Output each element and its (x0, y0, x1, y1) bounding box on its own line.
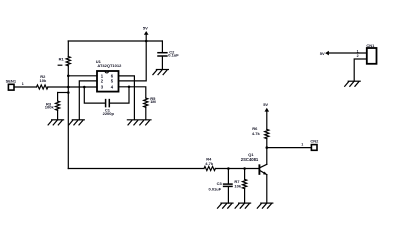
svg-text:1: 1 (301, 143, 303, 147)
wire pin2 to ground (79, 81, 97, 120)
capacitor C2 (158, 41, 179, 69)
svg-text:10k: 10k (234, 183, 241, 188)
wire pin6 to ground (119, 76, 135, 120)
wire R2 to IC pin3 (node SNS) (48, 86, 97, 88)
junction R1 bottom x pin1 wire (67, 75, 70, 78)
junction 5V drop x rail (145, 40, 148, 43)
resistor R7 (234, 179, 246, 203)
wire CN1 pin2 to ground (354, 59, 367, 81)
transistor Q1 2SC4081 (241, 148, 267, 204)
ground under R3 (48, 120, 63, 125)
resistor R5 (144, 96, 157, 120)
C1 left riser (84, 87, 105, 103)
svg-text:AT42QT1012: AT42QT1012 (97, 63, 122, 68)
wire SEN1 to R2 (14, 86, 36, 88)
wire pin1 (68, 75, 97, 77)
resistor R3 (45, 93, 69, 120)
ground under CN1 pin2 (345, 81, 361, 86)
svg-text:100k: 100k (45, 105, 55, 110)
C1 right riser to pin4 wire (110, 87, 130, 103)
svg-text:4.7k: 4.7k (252, 131, 261, 136)
C3 drop (227, 169, 229, 184)
resistor R1 (58, 41, 70, 76)
svg-text:1M: 1M (150, 99, 156, 104)
R7 drop (244, 169, 246, 180)
resistor R4 (204, 157, 215, 171)
svg-text:R1: R1 (59, 56, 65, 61)
svg-text:CN2: CN2 (310, 138, 319, 143)
connector CN1 (357, 43, 377, 64)
svg-text:2200p: 2200p (103, 111, 115, 116)
wire pin4 to R5 (119, 87, 146, 98)
svg-text:2: 2 (357, 54, 359, 58)
ground under R7 (235, 203, 251, 208)
pad CN2 (301, 138, 319, 150)
capacitor C3 (209, 181, 233, 203)
5V rail (68, 40, 162, 42)
ground under C2 (153, 70, 169, 75)
collector junction and wire to CN2 (266, 146, 269, 149)
junction main vertical x R2 line (67, 86, 70, 89)
wire pin5 to 5V drop (119, 41, 147, 81)
main vertical node wire (67, 76, 69, 169)
svg-text:5V: 5V (263, 102, 268, 107)
wire long bottom to R4 (68, 168, 204, 170)
svg-text:4.7k: 4.7k (205, 161, 214, 166)
svg-text:10k: 10k (40, 78, 47, 83)
junction R3 connector x main vertical (67, 91, 70, 94)
op IC U1 AT42QT1012 (96, 59, 122, 92)
power 5V top (143, 26, 149, 41)
ground under pin2 (69, 120, 85, 125)
svg-text:5V: 5V (320, 51, 325, 56)
svg-text:5V: 5V (143, 26, 148, 31)
wire R4 to base (215, 168, 259, 170)
svg-text:2SC4081: 2SC4081 (241, 157, 259, 162)
svg-text:1: 1 (22, 82, 24, 86)
svg-text:SEN1: SEN1 (6, 79, 17, 84)
resistor R6 (252, 126, 269, 148)
power 5V left arrow at CN1 (320, 51, 329, 56)
pad SEN1 (6, 79, 24, 91)
wide ground under pin6 / R5 (127, 120, 151, 125)
svg-text:0.1uF: 0.1uF (168, 53, 179, 58)
wire CN1 pin1 to 5V arrow (329, 52, 367, 54)
resistor R2 (37, 74, 48, 89)
capacitor C1 (103, 100, 115, 117)
power 5V lower (263, 102, 269, 130)
svg-text:CN1: CN1 (366, 43, 375, 48)
ground under C3 (218, 203, 234, 208)
ground under emitter (257, 203, 272, 208)
svg-text:0.01uF: 0.01uF (209, 186, 222, 191)
